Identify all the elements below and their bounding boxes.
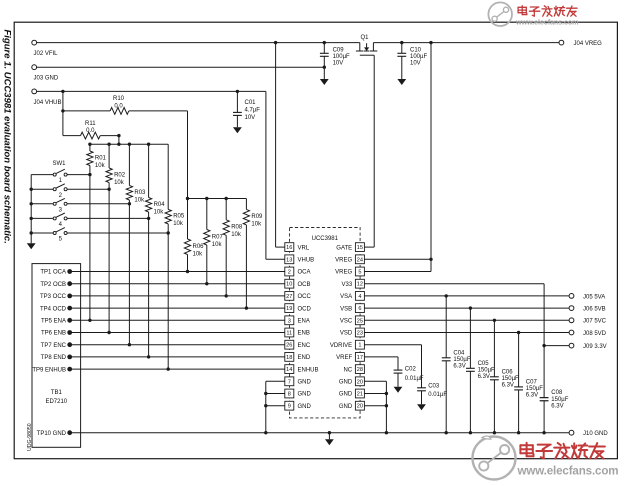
wire GATE: [364, 55, 374, 247]
wire OCA row: [70, 271, 285, 273]
capacitor C10: [397, 43, 427, 79]
svg-text:5: 5: [358, 270, 361, 276]
svg-text:13: 13: [286, 257, 292, 263]
svg-text:20: 20: [357, 379, 363, 385]
watermark bottom-right: [473, 436, 619, 479]
svg-text:J06 5VB: J06 5VB: [583, 307, 606, 313]
svg-text:J03 GND: J03 GND: [34, 76, 59, 82]
terminal J08: [569, 330, 607, 337]
test point TP9: [32, 367, 72, 374]
pin 19 OCD: [285, 304, 312, 313]
test point TP6: [41, 330, 72, 337]
svg-text:R04: R04: [154, 202, 166, 208]
svg-text:150µF: 150µF: [526, 386, 543, 392]
svg-text:6.3V: 6.3V: [502, 383, 514, 389]
svg-text:VSA: VSA: [340, 294, 352, 300]
node SW5/R05: [167, 231, 170, 234]
svg-text:19: 19: [286, 306, 292, 312]
pin 25 VSC: [340, 316, 365, 325]
pin 1 VDRIVE: [330, 340, 365, 349]
pin 6 VSB: [340, 304, 364, 313]
svg-text:150µF: 150µF: [502, 376, 519, 382]
svg-text:VREF: VREF: [336, 355, 352, 361]
svg-text:TP4 OCD: TP4 OCD: [40, 306, 67, 312]
node SW2/R02: [107, 188, 110, 191]
svg-text:14: 14: [286, 367, 292, 373]
pin 2 OCA: [285, 267, 311, 276]
svg-text:10V: 10V: [245, 115, 256, 121]
svg-text:10k: 10k: [114, 180, 125, 186]
pin 5 VREG: [335, 267, 364, 276]
svg-text:C02: C02: [405, 366, 417, 372]
svg-text:11: 11: [286, 331, 292, 337]
pin 16 VRL: [285, 243, 310, 252]
svg-text:4: 4: [358, 294, 361, 300]
wire left GND pins: [264, 381, 285, 432]
svg-text:15: 15: [357, 245, 363, 251]
svg-text:21: 21: [357, 392, 363, 398]
capacitor C05: [466, 308, 495, 433]
svg-text:TP3 OCC: TP3 OCC: [40, 294, 67, 300]
svg-text:UDG-98050: UDG-98050: [27, 423, 33, 451]
svg-text:www.elecfans.com: www.elecfans.com: [515, 18, 578, 27]
svg-text:1: 1: [358, 343, 361, 349]
wire END row: [70, 356, 285, 358]
node VREG/C10 tap: [400, 41, 403, 44]
svg-text:TB1: TB1: [51, 390, 63, 396]
wire OCD row: [70, 307, 285, 309]
pin 11 ENB: [285, 328, 310, 337]
svg-text:R06: R06: [193, 244, 205, 250]
svg-text:ENB: ENB: [298, 331, 310, 337]
ground C01: [233, 127, 242, 133]
svg-text:TP2 OCB: TP2 OCB: [40, 282, 66, 288]
node R01 bottom: [88, 319, 91, 322]
svg-text:150µF: 150µF: [551, 397, 568, 403]
capacitor C08: [540, 390, 569, 409]
svg-text:VREG: VREG: [335, 270, 352, 276]
svg-text:C05: C05: [478, 361, 490, 367]
node left GND/bus: [264, 431, 267, 434]
svg-text:10: 10: [286, 282, 292, 288]
wire ENB row: [70, 332, 285, 334]
svg-text:16: 16: [286, 245, 292, 251]
svg-text:ENC: ENC: [298, 343, 311, 349]
ground C09: [320, 79, 329, 85]
pin 17 VREF: [336, 353, 364, 362]
svg-text:TP6 ENB: TP6 ENB: [41, 331, 66, 337]
svg-text:R05: R05: [173, 214, 185, 220]
node J09 tap: [542, 344, 545, 347]
svg-text:10k: 10k: [212, 242, 223, 248]
svg-text:TP10 GND: TP10 GND: [37, 431, 67, 437]
svg-text:J04 VREG: J04 VREG: [574, 41, 603, 47]
svg-text:6.3V: 6.3V: [453, 364, 465, 370]
svg-text:VHUB: VHUB: [298, 258, 315, 264]
svg-text:R10: R10: [113, 96, 125, 102]
terminal J02 VFIL: [32, 40, 58, 57]
resistor R11: [63, 121, 119, 144]
svg-text:R08: R08: [231, 225, 243, 231]
svg-text:END: END: [298, 355, 311, 361]
svg-text:6: 6: [358, 306, 361, 312]
svg-text:C04: C04: [453, 350, 465, 356]
svg-text:R09: R09: [251, 214, 263, 220]
svg-text:150µF: 150µF: [453, 357, 470, 363]
svg-text:R03: R03: [134, 190, 146, 196]
node R02 bottom: [107, 331, 110, 334]
svg-text:J07 5VC: J07 5VC: [583, 319, 607, 325]
node C09/GND rail: [323, 66, 326, 69]
svg-text:2: 2: [288, 270, 291, 276]
resistor R10: [63, 96, 188, 198]
svg-text:27: 27: [286, 294, 292, 300]
wire VREG rail: [373, 42, 559, 44]
wire right GND pins: [364, 381, 388, 432]
node R03 bottom: [128, 343, 131, 346]
pin 7 GND: [285, 377, 312, 386]
svg-text:18: 18: [286, 355, 292, 361]
capacitor C01: [233, 91, 260, 127]
svg-text:NC: NC: [344, 367, 353, 373]
svg-text:TP1 OCA: TP1 OCA: [40, 270, 66, 276]
svg-text:R02: R02: [114, 172, 126, 178]
wire VFIL rail: [37, 42, 360, 44]
svg-text:C01: C01: [245, 100, 257, 106]
svg-text:28: 28: [357, 367, 363, 373]
ground C10: [397, 79, 406, 85]
pin 23 VSD: [340, 328, 365, 337]
svg-text:8: 8: [288, 392, 291, 398]
svg-text:GND: GND: [298, 380, 312, 386]
wire VFIL to VRL: [276, 43, 285, 248]
svg-text:0.01µF: 0.01µF: [428, 392, 447, 398]
svg-text:J08 5VD: J08 5VD: [583, 331, 607, 337]
switch SW1-5: [31, 228, 168, 243]
svg-text:www.elecfans.com: www.elecfans.com: [517, 465, 619, 478]
svg-text:C03: C03: [428, 384, 440, 390]
wire ENHUB row: [70, 368, 285, 370]
node right GND/bus: [385, 431, 388, 434]
resistor R05: [165, 144, 185, 369]
node C07/GND bus: [517, 431, 520, 434]
node R06 bottom: [186, 270, 189, 273]
node SW4/R04: [147, 217, 150, 220]
terminal J07: [569, 318, 607, 325]
ground SW1: [27, 243, 36, 249]
capacitor C03: [364, 345, 447, 405]
svg-text:R07: R07: [212, 234, 224, 240]
resistor R03: [126, 144, 146, 345]
svg-text:J04 VHUB: J04 VHUB: [34, 100, 62, 106]
node VFIL/C09 tap: [323, 41, 326, 44]
capacitor C02: [364, 357, 424, 387]
wire VREG pin24: [364, 258, 431, 260]
ground C02: [394, 387, 403, 393]
svg-text:C09: C09: [333, 47, 345, 53]
svg-text:100µF: 100µF: [410, 54, 427, 60]
node C04/GND bus: [445, 431, 448, 434]
test point TP3: [40, 294, 72, 301]
node VFIL/VRL tap: [274, 41, 277, 44]
svg-text:J10 GND: J10 GND: [583, 431, 608, 437]
wire GND rail: [37, 66, 325, 68]
node C06/GND bus: [493, 431, 496, 434]
svg-text:VREG: VREG: [335, 258, 352, 264]
svg-text:J09 3.3V: J09 3.3V: [583, 344, 607, 350]
pin 18 END: [285, 353, 311, 362]
pin 20 GND: [339, 377, 365, 386]
pin 24 VREG: [335, 255, 364, 264]
resistor R04: [146, 144, 166, 357]
switch SW1-3: [31, 198, 129, 213]
node SW1/R01: [88, 173, 91, 176]
svg-text:VRL: VRL: [298, 245, 310, 251]
svg-text:9: 9: [288, 404, 291, 410]
svg-text:VSB: VSB: [340, 306, 352, 312]
svg-text:10k: 10k: [95, 163, 106, 169]
svg-text:150µF: 150µF: [478, 367, 495, 373]
svg-text:VSD: VSD: [340, 331, 353, 337]
svg-text:ENA: ENA: [298, 319, 310, 325]
svg-text:10k: 10k: [154, 209, 165, 215]
svg-text:OCC: OCC: [298, 294, 312, 300]
watermark top-right: [488, 2, 578, 26]
svg-text:20: 20: [357, 404, 363, 410]
svg-text:7: 7: [288, 379, 291, 385]
pin 21 GND: [339, 389, 365, 398]
node VHUB/R10 branch: [61, 90, 64, 93]
svg-text:VSC: VSC: [340, 319, 353, 325]
test point TP5: [41, 318, 72, 325]
wire OCB row: [70, 283, 285, 285]
svg-text:TP7 ENC: TP7 ENC: [41, 343, 67, 349]
node R07 bottom: [205, 282, 208, 285]
node VREG junction: [429, 258, 432, 261]
svg-text:OCA: OCA: [298, 270, 311, 276]
svg-text:0.0: 0.0: [86, 128, 95, 134]
svg-text:C08: C08: [551, 390, 563, 396]
capacitor C09: [320, 43, 350, 79]
ground GND bus: [325, 431, 334, 445]
wire VHUB rail: [37, 90, 266, 92]
node R04 bottom: [147, 355, 150, 358]
svg-text:J05 5VA: J05 5VA: [583, 294, 605, 300]
svg-text:C07: C07: [526, 379, 538, 385]
test point TP2: [40, 281, 72, 288]
wire 5VA row: [364, 294, 569, 297]
resistor R09: [243, 199, 263, 309]
svg-text:10k: 10k: [134, 197, 145, 203]
pin 15 GATE: [336, 243, 364, 252]
pin 3 ENA: [285, 316, 310, 325]
svg-text:Figure 1. UCC3981 evaluation b: Figure 1. UCC3981 evaluation board schem…: [2, 30, 13, 244]
wire VREF divider bus: [88, 143, 168, 146]
svg-text:26: 26: [286, 343, 292, 349]
pin 28 NC: [344, 365, 365, 374]
node R09 bottom: [245, 306, 248, 309]
svg-text:GATE: GATE: [336, 245, 352, 251]
switch SW1 label: [53, 161, 67, 167]
svg-text:R11: R11: [85, 121, 96, 127]
terminal J05: [569, 294, 605, 301]
switch SW1-4: [31, 213, 148, 228]
node R11 out: [117, 134, 120, 137]
svg-text:C06: C06: [502, 369, 514, 375]
svg-text:R01: R01: [95, 155, 107, 161]
resistor R06: [184, 199, 204, 272]
node C08/GND bus: [542, 431, 545, 434]
svg-text:23: 23: [357, 331, 363, 337]
capacitor C06: [490, 320, 519, 432]
terminal J09 3.3V: [569, 343, 607, 350]
svg-text:GND: GND: [298, 392, 312, 398]
svg-text:10V: 10V: [333, 61, 344, 67]
svg-text:6.3V: 6.3V: [551, 403, 563, 409]
terminal J04 VHUB: [32, 89, 62, 106]
wire 5VB row: [364, 306, 569, 309]
svg-text:UCC3981: UCC3981: [312, 236, 339, 242]
wire VREG pin5: [364, 43, 431, 272]
wire GND bus: [70, 432, 569, 434]
svg-text:3: 3: [288, 318, 291, 324]
svg-text:GND: GND: [298, 404, 312, 410]
pin 26 ENC: [285, 340, 311, 349]
svg-text:VDRIVE: VDRIVE: [330, 343, 352, 349]
svg-text:10k: 10k: [173, 221, 184, 227]
test point TP10: [37, 430, 72, 437]
svg-text:12: 12: [357, 282, 363, 288]
resistor R07: [204, 199, 224, 284]
svg-text:OCB: OCB: [298, 282, 311, 288]
node VHUB/C01 tap: [236, 90, 239, 93]
pin 27 OCC: [285, 292, 312, 301]
switch SW1-1: [31, 169, 90, 184]
wire OC pull-up bus: [186, 197, 247, 200]
terminal J10 GND: [569, 430, 608, 437]
wire 5VC row: [364, 319, 569, 322]
op-amp U1 UCC3981 outline: [290, 228, 361, 418]
switch SW1-2: [31, 184, 109, 199]
resistor R02: [106, 144, 126, 332]
svg-text:17: 17: [357, 355, 363, 361]
svg-text:GND: GND: [339, 404, 353, 410]
wire VHUB to pin13: [266, 91, 285, 259]
svg-text:Q1: Q1: [361, 35, 370, 41]
svg-text:24: 24: [357, 257, 363, 263]
node C05/GND bus: [469, 431, 472, 434]
test point TP7: [41, 342, 72, 349]
label UDG: [27, 423, 33, 451]
wire J09 row: [544, 345, 569, 347]
svg-text:OCD: OCD: [298, 306, 312, 312]
pin 20 GND: [339, 401, 365, 410]
svg-text:GND: GND: [339, 392, 353, 398]
node R05 bottom: [167, 367, 170, 370]
svg-text:ENHUB: ENHUB: [298, 367, 319, 373]
wire ENC row: [70, 344, 285, 346]
wire V33 to J09: [364, 284, 544, 433]
svg-text:ED7210: ED7210: [45, 399, 67, 405]
svg-text:10k: 10k: [231, 232, 242, 238]
pin 8 GND: [285, 389, 312, 398]
pin 13 VHUB: [285, 255, 314, 264]
pin 10 OCB: [285, 279, 311, 288]
svg-text:TP5 ENA: TP5 ENA: [41, 319, 66, 325]
svg-text:10k: 10k: [193, 251, 204, 257]
test point TP8: [41, 355, 72, 362]
transistor Q1: [356, 35, 377, 55]
svg-text:V33: V33: [342, 282, 353, 288]
svg-text:TP8 END: TP8 END: [41, 355, 67, 361]
svg-text:100µF: 100µF: [333, 54, 350, 60]
svg-text:GND: GND: [339, 380, 353, 386]
terminal J06: [569, 306, 606, 313]
svg-text:TP9 ENHUB: TP9 ENHUB: [32, 367, 66, 373]
svg-text:6.3V: 6.3V: [478, 374, 490, 380]
svg-text:4.7µF: 4.7µF: [245, 108, 261, 114]
svg-text:SW1: SW1: [53, 161, 67, 167]
capacitor C07: [514, 333, 543, 433]
resistor R08: [223, 199, 243, 296]
svg-text:10V: 10V: [410, 61, 421, 67]
test point TP1: [40, 269, 72, 276]
svg-text:0.0: 0.0: [114, 103, 123, 109]
terminal J03 GND: [32, 65, 59, 82]
svg-text:C10: C10: [410, 47, 422, 53]
pin 12 V33: [342, 279, 365, 288]
wire OCC row: [70, 295, 285, 297]
test point TP4: [40, 306, 72, 313]
ground C03: [417, 404, 426, 410]
node R10 feed: [61, 109, 64, 112]
wire ENA row: [70, 319, 285, 321]
wire SW1 common bus: [30, 175, 33, 244]
node R08 bottom: [225, 294, 228, 297]
wire VHUB branch: [62, 91, 64, 135]
capacitor C04: [442, 296, 471, 433]
svg-text:J02 VFIL: J02 VFIL: [34, 51, 59, 57]
pin 14 ENHUB: [285, 365, 319, 374]
pin 9 GND: [285, 401, 312, 410]
svg-text:25: 25: [357, 318, 363, 324]
wire 5VD row: [364, 331, 569, 334]
svg-text:6.3V: 6.3V: [526, 393, 538, 399]
pin 4 VSA: [340, 292, 364, 301]
connector TB1 box: [32, 264, 81, 448]
node SW3/R03: [128, 202, 131, 205]
resistor R01: [87, 144, 107, 320]
node VREG pins tap: [429, 41, 432, 44]
svg-text:10k: 10k: [251, 222, 262, 228]
terminal J04 VREG: [559, 40, 602, 47]
figure caption: [2, 30, 13, 244]
